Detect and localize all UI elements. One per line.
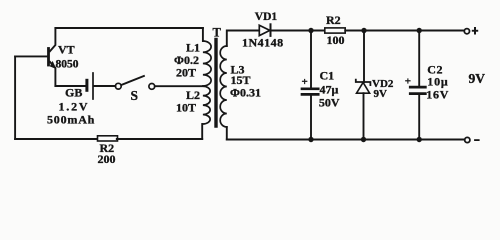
node junction C1 top bbox=[308, 28, 313, 33]
switch S right contact bbox=[149, 84, 155, 90]
svg-text:10μ: 10μ bbox=[427, 75, 448, 89]
output terminal minus bbox=[465, 137, 470, 142]
wire collector lead bbox=[50, 28, 56, 51]
svg-text:T: T bbox=[213, 26, 222, 40]
wire bottom-right rail bbox=[227, 139, 464, 141]
svg-text:50V: 50V bbox=[319, 96, 340, 110]
svg-text:S: S bbox=[131, 88, 139, 103]
svg-text:GB: GB bbox=[65, 86, 82, 100]
wire battery to switch bbox=[94, 85, 116, 87]
wire VD2 to bottom rail bbox=[363, 93, 365, 139]
svg-text:16V: 16V bbox=[426, 88, 449, 102]
wire diode to R2 bbox=[271, 30, 325, 32]
svg-text:8050: 8050 bbox=[56, 59, 79, 71]
svg-text:9V: 9V bbox=[469, 71, 486, 86]
svg-text:VD1: VD1 bbox=[255, 11, 278, 23]
capacitor C2 top plate bbox=[410, 86, 425, 89]
svg-text:47μ: 47μ bbox=[320, 83, 339, 97]
wire R2 to plus terminal bbox=[345, 30, 464, 32]
zener VD2 triangle bbox=[357, 82, 370, 93]
diode VD1 cathode bar bbox=[270, 24, 272, 36]
node junction C1 bottom bbox=[308, 137, 313, 142]
node junction C2 top bbox=[417, 28, 422, 33]
wire VD2 branch bbox=[363, 31, 365, 83]
transistor VT emitter arrow bbox=[50, 62, 56, 69]
wire left vertical bbox=[14, 56, 16, 139]
wire L2 bottom lead bbox=[201, 124, 203, 139]
wire top-left rail bbox=[55, 27, 203, 29]
svg-text:+: + bbox=[405, 76, 411, 88]
svg-text:200: 200 bbox=[98, 152, 116, 166]
output terminal plus bbox=[464, 29, 469, 34]
battery GB short plate bbox=[85, 80, 88, 90]
svg-text:C1: C1 bbox=[320, 69, 335, 83]
transistor VT emitter bbox=[50, 62, 56, 86]
wire bottom-left rail segment 1 bbox=[15, 138, 97, 140]
transformer L1 winding bbox=[203, 41, 211, 86]
diode VD1 triangle bbox=[259, 25, 270, 35]
resistor R2 (200) box bbox=[98, 136, 118, 141]
svg-text:VT: VT bbox=[58, 43, 75, 57]
capacitor C1 bottom plate bbox=[302, 93, 318, 96]
transistor VT 8050 body bar bbox=[47, 49, 50, 66]
node junction VD2 bottom bbox=[361, 137, 366, 142]
transformer L3 winding bbox=[220, 46, 227, 127]
wire C1 branch bbox=[310, 31, 312, 87]
svg-text:100: 100 bbox=[327, 33, 345, 47]
switch S blade bbox=[121, 76, 144, 85]
wire L1 top lead bbox=[202, 28, 204, 41]
node junction VD2 top bbox=[361, 28, 366, 33]
wire C1 to bottom rail bbox=[310, 96, 312, 140]
svg-text:Φ0.31: Φ0.31 bbox=[230, 86, 261, 100]
wire L3 top lead bbox=[227, 31, 259, 47]
wire emitter to battery bbox=[55, 85, 85, 87]
svg-text:500mAh: 500mAh bbox=[47, 113, 95, 127]
svg-text:R2: R2 bbox=[326, 13, 341, 27]
transformer L2 winding bbox=[203, 86, 210, 124]
capacitor C2 bottom plate bbox=[410, 92, 425, 95]
label minus terminal bbox=[474, 139, 480, 141]
battery GB long plate bbox=[92, 73, 94, 99]
zener VD2 cathode bar bbox=[356, 80, 371, 86]
svg-text:9V: 9V bbox=[374, 88, 388, 100]
wire switch to tap bbox=[155, 85, 204, 87]
svg-text:+: + bbox=[302, 76, 308, 88]
wire L3 bottom lead bbox=[226, 127, 228, 140]
svg-text:1N4148: 1N4148 bbox=[242, 36, 284, 50]
wire base lead bbox=[15, 55, 47, 57]
transformer core bbox=[214, 40, 217, 127]
wire C2 branch bbox=[418, 31, 420, 86]
switch S left contact bbox=[115, 83, 121, 89]
svg-text:1.2V: 1.2V bbox=[59, 100, 90, 114]
svg-text:20T: 20T bbox=[176, 66, 196, 80]
capacitor C1 top plate bbox=[302, 87, 318, 90]
node junction C2 bottom bbox=[417, 137, 422, 142]
wire bottom-left rail segment 2 bbox=[117, 138, 202, 140]
wire C2 to bottom rail bbox=[418, 95, 420, 140]
resistor R2 (100) box bbox=[325, 28, 345, 33]
label plus terminal bbox=[472, 30, 478, 32]
svg-text:10T: 10T bbox=[176, 101, 196, 115]
